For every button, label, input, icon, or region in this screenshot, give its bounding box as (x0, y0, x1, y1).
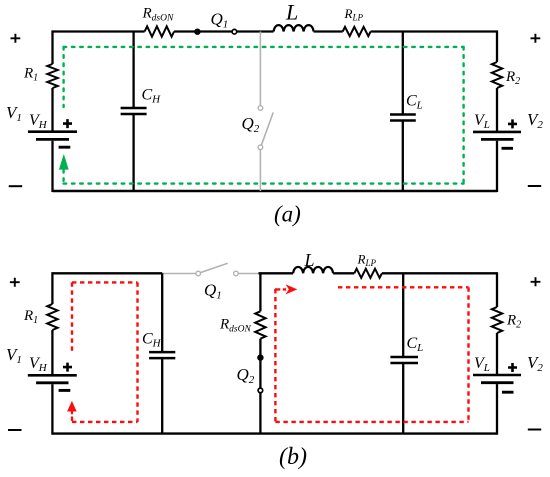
svg-text:RdsON: RdsON (142, 6, 174, 24)
wire Q1 to L (b) (259, 272, 294, 274)
wire Q2 to bottom (b) (259, 393, 261, 434)
switch Q1 open (b): lever (200, 263, 227, 272)
svg-text:L: L (285, 0, 298, 25)
capacitor CH (a) plates (121, 108, 147, 114)
battery VH (a) short plate (36, 138, 69, 141)
battery VL (b) short plate (481, 381, 514, 384)
green current loop (a) left edge upper (62, 47, 64, 107)
svg-text:R1: R1 (23, 308, 38, 326)
resistor RLP (a) (343, 27, 371, 36)
battery VH (a) minus sign (59, 146, 71, 149)
green current loop (a) left edge lower (62, 170, 64, 184)
capacitor CH (b) plates (149, 352, 175, 358)
wire VH to bottom-left corner (a) (51, 141, 53, 192)
wire VL to bottom-right corner (b) (496, 384, 498, 435)
label plus top-right (a) (531, 34, 541, 43)
wire R2 to VL (b) (496, 333, 498, 374)
resistor RLP (b) (354, 269, 382, 278)
switch Q1 closed (a): node dot (194, 29, 200, 35)
wire R1 to VH (b) (51, 330, 53, 374)
red left loop (b) right edge (136, 282, 138, 422)
inductor L (b) (293, 267, 333, 273)
red left loop (b) bottom edge (72, 421, 138, 423)
wire VH to bottom-left corner (b) (51, 384, 53, 435)
red right loop (b) right edge (467, 287, 469, 422)
svg-text:R2: R2 (506, 313, 521, 331)
red right loop (b) arrow tail dash (275, 288, 286, 290)
wire R1 to VH (a) (51, 88, 53, 131)
battery VH (b) long plate (28, 374, 77, 377)
label minus bottom-right (a) (528, 185, 541, 187)
red arrow right (b) (286, 284, 298, 294)
capacitor CH branch upper wire (b) (161, 273, 163, 352)
wire right side upper (a) (496, 30, 498, 62)
red right loop (b) bottom edge (275, 421, 468, 423)
green current loop (a) bottom edge (64, 182, 464, 184)
svg-text:(b): (b) (279, 444, 307, 470)
capacitor CH branch lower wire (b) (161, 358, 163, 434)
wire Q1 to L (a) (237, 30, 274, 32)
switch Q2 open (a): lever (262, 113, 274, 145)
wire VL to bottom-right corner (a) (496, 141, 498, 192)
battery VH (b) plus sign (63, 363, 72, 372)
switch Q2 closed (b): pole circle (258, 388, 263, 393)
wire top-left segment (a) (53, 30, 145, 32)
resistor R2 (a) (492, 62, 502, 88)
battery VL (a) long plate (473, 131, 521, 134)
switch Q1 open (b): left gray wire (162, 273, 196, 275)
switch Q1 closed (a): pole circle (232, 29, 237, 34)
branch RdsON/Q2 upper wire (b) (259, 273, 261, 311)
battery VL (a) short plate (481, 138, 514, 141)
switch Q1 open (b): right circle (234, 271, 239, 276)
red left loop (b) top edge (72, 281, 138, 283)
switch Q2 open (a): lower circle (258, 145, 263, 150)
resistor R1 (b) (47, 304, 57, 330)
wire left side upper (b) (51, 272, 53, 304)
red arrow up (b) (67, 401, 77, 414)
svg-text:CH: CH (142, 331, 162, 350)
wire R2 to VL (a) (496, 88, 498, 131)
battery VL (a) minus sign (502, 147, 514, 150)
capacitor CL branch lower wire (a) (402, 121, 404, 192)
battery VL (b) minus sign (502, 391, 514, 394)
resistor R1 (a) (47, 64, 57, 88)
green current loop (a) right edge (462, 47, 464, 184)
red left loop (b) left edge lower (71, 417, 73, 422)
svg-text:CL: CL (407, 335, 424, 354)
svg-text:Q2: Q2 (242, 114, 260, 135)
wire bottom (b) (52, 432, 497, 434)
red right loop (b) top edge (338, 286, 469, 288)
svg-text:V1: V1 (6, 103, 22, 124)
battery VL (b) plus sign (508, 363, 517, 372)
svg-text:CH: CH (142, 87, 162, 106)
red left loop (b) left edge upper (71, 282, 73, 352)
switch Q1 open (b): right gray wire (238, 273, 258, 275)
red right loop (b) left edge (274, 289, 276, 422)
inductor L (a) (274, 25, 314, 31)
label plus top-right (b) (531, 277, 541, 286)
battery VL (b) long plate (473, 374, 521, 377)
wire L to RLP (a) (314, 30, 343, 32)
resistor RdsON (a) (145, 26, 175, 36)
svg-text:VH: VH (29, 112, 48, 131)
battery VL (a) plus sign (508, 119, 517, 128)
capacitor CH branch lower wire (a) (132, 114, 134, 191)
capacitor CL (a) plates (390, 115, 416, 121)
svg-text:RLP: RLP (344, 6, 364, 23)
svg-text:RdsON: RdsON (219, 317, 251, 335)
wire right side upper (b) (496, 272, 498, 307)
svg-text:VH: VH (29, 355, 48, 374)
wire RLP to top-right corner (a) (371, 30, 497, 32)
switch Q1 open (b): left circle (196, 271, 201, 276)
svg-text:RLP: RLP (357, 252, 377, 269)
capacitor CL branch upper wire (a) (402, 32, 404, 115)
switch Q2 open (a): upper circle (258, 106, 263, 111)
label minus bottom-left (b) (8, 429, 22, 431)
svg-text:VL: VL (474, 355, 490, 374)
wire RdsON to Q2 node (b) (259, 339, 261, 358)
capacitor CL (b) plates (390, 357, 418, 363)
svg-text:R1: R1 (23, 66, 38, 84)
svg-text:Q1: Q1 (204, 281, 222, 302)
wire top-left segment (b) (52, 272, 162, 274)
wire RdsON to Q1 (a) (174, 30, 234, 32)
svg-text:V1: V1 (6, 345, 22, 366)
green current loop (a) top edge (64, 46, 464, 48)
svg-text:R2: R2 (505, 69, 520, 87)
capacitor CL branch lower wire (b) (402, 363, 404, 434)
wire RLP to top-right corner (b) (382, 272, 497, 274)
label plus top-left (b) (10, 278, 20, 287)
svg-text:CL: CL (406, 93, 423, 112)
label minus bottom-right (b) (528, 429, 541, 431)
label plus top-left (a) (11, 34, 21, 43)
svg-text:V2: V2 (527, 353, 543, 374)
svg-text:V2: V2 (527, 110, 543, 131)
wire L to RLP (b) (333, 272, 354, 274)
switch Q2 open (a): upper gray wire (259, 32, 261, 106)
switch Q2 open (a): lower gray wire (259, 150, 261, 192)
switch Q2 closed (b): node dot (257, 354, 263, 360)
svg-text:VL: VL (474, 112, 490, 131)
battery VH (b) short plate (36, 381, 68, 384)
svg-text:Q2: Q2 (237, 365, 255, 386)
wire Q2 dot to circle (b) (259, 358, 261, 389)
wire left side upper (a) (51, 30, 53, 64)
battery VH (a) long plate (28, 130, 77, 133)
svg-text:L: L (304, 250, 315, 270)
battery VH (a) plus sign (63, 119, 72, 128)
svg-text:(a): (a) (274, 202, 301, 227)
capacitor CH branch upper wire (a) (132, 32, 134, 109)
resistor RdsON (b) (255, 311, 265, 338)
resistor R2 (b) (492, 307, 502, 333)
svg-text:Q1: Q1 (211, 10, 229, 31)
wire bottom (a) (53, 190, 498, 192)
capacitor CL branch upper wire (b) (402, 273, 404, 357)
label minus bottom-left (a) (9, 185, 23, 187)
green arrow up (a) (59, 154, 69, 170)
battery VH (b) minus sign (59, 389, 71, 392)
